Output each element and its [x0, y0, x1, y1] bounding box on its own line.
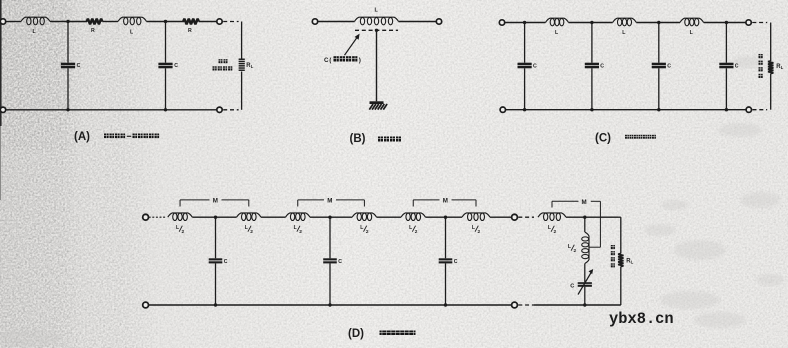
annotation C distributed-capacitance (B) [324, 56, 361, 64]
node D5 junction [214, 303, 217, 306]
capacitor C1 (A) [61, 22, 81, 110]
node A-out top terminal [217, 19, 222, 24]
wire [426, 216, 463, 218]
node D4 junction [583, 216, 586, 219]
wire dashed bottom right (A) [223, 109, 238, 111]
svg-text:L: L [294, 225, 297, 231]
node C-out bottom terminal [746, 107, 751, 112]
svg-text:L: L [631, 260, 634, 265]
node D8 junction [583, 303, 586, 306]
label M4 [582, 199, 587, 206]
wire bottom rail (C) [506, 109, 747, 111]
wire [399, 21, 437, 23]
wire [490, 216, 512, 218]
wire [584, 264, 586, 283]
wire dotted lead-in (D) [149, 216, 167, 218]
svg-text:2: 2 [478, 229, 481, 235]
wire [261, 216, 286, 218]
capacitor C4 (C) [719, 23, 739, 110]
capacitor C2 (C) [585, 23, 605, 110]
node C7 junction [657, 108, 660, 111]
mutual inductance bracket M1 (D) [180, 200, 249, 207]
node C8 junction [725, 108, 728, 111]
svg-text:M: M [213, 198, 218, 205]
svg-text:R: R [91, 28, 95, 34]
node D-mid top terminal [512, 214, 518, 220]
node B tap junction [375, 29, 378, 32]
capacitor C3 (D) [439, 217, 458, 305]
label (C) [595, 133, 611, 145]
node D2 junction [328, 216, 331, 219]
svg-text:2: 2 [299, 229, 302, 235]
wire ground drop (B) [376, 30, 378, 101]
svg-text:L: L [568, 244, 571, 250]
resistor R1 (A) [87, 19, 103, 25]
wire [102, 21, 118, 23]
caption (D) [380, 331, 416, 336]
node C4 junction [725, 21, 728, 24]
label L3 (C) [690, 30, 694, 36]
svg-text:2: 2 [415, 229, 418, 235]
label (D) [348, 328, 364, 340]
svg-text:C: C [454, 259, 458, 265]
node D-in top terminal [143, 214, 149, 220]
wire [50, 21, 87, 23]
svg-text:C: C [533, 63, 537, 69]
capacitor C3 (C) [652, 23, 672, 110]
inductor L (B) [355, 17, 399, 25]
annotation text (C) vertical [759, 54, 763, 78]
label L/2 (2b) [360, 225, 369, 235]
svg-text:C: C [338, 259, 342, 265]
wire bottom rail (A) [6, 109, 217, 111]
node C1 junction [523, 21, 526, 24]
inductor L2 (A) [118, 17, 147, 25]
svg-text:(A): (A) [74, 131, 90, 143]
wire RL branch (D) [618, 217, 621, 305]
label L1 (A) [33, 29, 37, 35]
svg-text:L: L [472, 225, 475, 231]
svg-text:M: M [327, 198, 332, 205]
node B-out terminal [436, 19, 441, 24]
watermark ybx8.cn [609, 310, 674, 328]
node D-in bottom terminal [143, 302, 149, 308]
node A4 junction [164, 108, 167, 111]
wire [199, 21, 217, 23]
svg-text:L: L [251, 64, 254, 69]
mutual inductance bracket M2 (D) [298, 200, 365, 207]
svg-text:(C): (C) [595, 133, 611, 145]
label L/2 (2a) [294, 225, 303, 235]
wire RL drop (C) [770, 23, 772, 110]
svg-text:L: L [176, 225, 179, 231]
wire [192, 216, 236, 218]
node C2 junction [590, 21, 593, 24]
node D-mid bottom terminal [512, 302, 518, 308]
wire [318, 21, 355, 23]
label L/2 (1a) [176, 225, 185, 235]
caption (A) [104, 134, 159, 139]
svg-text:L: L [245, 225, 248, 231]
svg-text:M: M [582, 199, 587, 206]
node D1 junction [214, 216, 217, 219]
svg-text:L: L [781, 65, 784, 70]
trimmer capacitor C (D) [578, 269, 594, 295]
svg-text:2: 2 [574, 248, 577, 254]
node A-out bottom terminal [217, 107, 222, 112]
node D7 junction [444, 303, 447, 306]
inductor L1 (C) [546, 18, 569, 26]
label R1 (A) [91, 28, 95, 34]
node C-out top terminal [746, 20, 751, 25]
node D3 junction [444, 216, 447, 219]
inductor L2 (C) [613, 18, 637, 26]
inductor L/2 (3b) (D) [462, 213, 490, 221]
svg-text:): ) [359, 57, 361, 64]
wire [584, 287, 586, 305]
label RL (C) [776, 64, 783, 70]
caption (B) [378, 137, 401, 142]
resistor RL (C) [768, 61, 773, 74]
arrow to dashed line (B) [345, 34, 360, 56]
svg-text:2: 2 [366, 229, 369, 235]
annotation text (A) line2 [213, 66, 233, 70]
mutual inductance bracket M4 (D) [552, 201, 600, 247]
svg-text:C: C [735, 63, 739, 69]
svg-text:2: 2 [250, 229, 253, 235]
label L/2 (1b) [245, 225, 254, 235]
svg-text:C: C [174, 63, 178, 69]
capacitor C2 (A) [158, 22, 178, 110]
wire [584, 217, 586, 232]
node C-in bottom terminal [500, 107, 505, 112]
svg-text:M: M [443, 198, 448, 205]
wire dashed (D top gap) [518, 216, 534, 218]
node A1 junction [66, 20, 69, 23]
inductor L/2 (1b) (D) [237, 213, 261, 221]
label (A) [74, 131, 90, 143]
label L/2 (3b) [472, 225, 481, 235]
inductor L/2 (2a) (D) [286, 213, 311, 221]
node C-in top terminal [499, 20, 504, 25]
svg-text:C: C [224, 259, 228, 265]
label L1 (C) [555, 30, 559, 36]
caption (C) [625, 135, 656, 139]
node A-in bottom terminal [0, 107, 5, 112]
annotation text (A) line1 [219, 59, 228, 63]
node C5 junction [523, 108, 526, 111]
ground (B) [369, 101, 387, 109]
label L/2 (3a) [409, 225, 418, 235]
label L/2 vertical [568, 244, 577, 254]
label R2 (A) [188, 28, 192, 34]
svg-text:C: C [77, 63, 81, 69]
mutual inductance bracket M3 (D) [413, 200, 476, 207]
wire dashed (D bottom gap) [518, 304, 534, 306]
capacitor C1 (C) [518, 23, 538, 110]
wire bottom rail (D) [149, 304, 512, 306]
svg-text:ybx8.cn: ybx8.cn [609, 310, 674, 328]
wire [566, 216, 618, 218]
svg-text:L: L [548, 225, 551, 231]
wire RL drop (A) [241, 22, 243, 110]
svg-text:2: 2 [554, 229, 557, 235]
label RL (A) [246, 63, 253, 69]
label C trimmer [570, 284, 574, 290]
wire dashed top right (C) [752, 22, 767, 24]
svg-text:(B): (B) [350, 133, 366, 145]
svg-text:R: R [188, 28, 192, 34]
inductor L/2 vertical (D) [582, 232, 589, 264]
node D6 junction [328, 303, 331, 306]
node A2 junction [164, 20, 167, 23]
label M2 [327, 198, 332, 205]
inductor L3 (C) [680, 18, 704, 26]
resistor R2 (A) [183, 19, 199, 25]
capacitance dashed line (B) [355, 29, 398, 31]
annotation text (D) vertical [611, 245, 615, 267]
node C6 junction [590, 108, 593, 111]
label (B) [350, 133, 366, 145]
node C3 junction [657, 21, 660, 24]
label L/2 (4a) [548, 225, 557, 235]
inductor L/2 (4a) (D) [538, 213, 566, 221]
wire top rail (C) [505, 22, 746, 24]
node A-in top terminal [0, 19, 5, 24]
svg-text:(D): (D) [348, 328, 364, 340]
node B-in terminal [312, 19, 317, 24]
inductor L/2 (1a) (D) [168, 213, 193, 221]
label RL (D) [626, 259, 633, 265]
svg-text:L: L [409, 225, 412, 231]
wire dashed top right (A) [223, 21, 238, 23]
resistor RL (D) [618, 254, 623, 267]
svg-text:L: L [360, 225, 363, 231]
inductor L/2 (3a) (D) [401, 213, 426, 221]
label L (B) [375, 7, 379, 13]
wire dashed bottom right (C) [753, 109, 768, 111]
svg-text:C: C [324, 57, 329, 64]
wire [310, 216, 352, 218]
svg-text:C: C [600, 63, 604, 69]
svg-text:C: C [570, 284, 574, 290]
resistor RL (A) [239, 59, 245, 71]
inductor L/2 (2b) (D) [352, 213, 376, 221]
wire [377, 216, 401, 218]
svg-text:C: C [667, 63, 671, 69]
wire [6, 21, 21, 23]
label M3 [443, 198, 448, 205]
capacitor C2 (D) [323, 217, 342, 305]
label L2 (A) [130, 30, 134, 36]
label M1 [213, 198, 218, 205]
svg-text:2: 2 [182, 229, 185, 235]
inductor L1 (A) [21, 17, 50, 25]
capacitor C1 (D) [209, 217, 228, 305]
wire bottom rail right (D) [534, 304, 621, 306]
label L2 (C) [622, 30, 626, 36]
node A3 junction [66, 108, 69, 111]
wire [147, 21, 185, 23]
